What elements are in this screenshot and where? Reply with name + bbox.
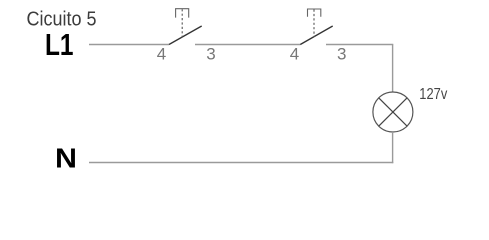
svg-text:4: 4 [157, 45, 166, 64]
lamp LP1 cross diagonal 1 [379, 98, 407, 126]
switch S1 blade [169, 26, 202, 45]
wire from switch S1 to switch S2 [195, 44, 300, 46]
switch S2 push actuator bracket [308, 9, 321, 17]
switch S2 blade [300, 26, 332, 45]
svg-text:N: N [55, 142, 77, 173]
switch S1 push actuator bracket [176, 9, 189, 18]
svg-text:3: 3 [337, 45, 346, 64]
wire N line [89, 162, 393, 164]
svg-text:127v: 127v [419, 86, 447, 103]
wire from L1 to switch S1 [89, 44, 169, 46]
wire from switch S2 to lamp branch corner [326, 44, 393, 46]
switch S1 actuator dashed link [181, 9, 183, 37]
wire vertical down to lamp [392, 45, 394, 93]
lamp LP1 cross diagonal 2 [379, 98, 407, 126]
svg-text:L1: L1 [45, 27, 74, 62]
svg-text:4: 4 [290, 45, 299, 64]
switch S2 actuator dashed link [313, 10, 315, 38]
wire from lamp down to N line [392, 132, 394, 163]
svg-text:3: 3 [206, 45, 215, 64]
lamp LP1 circle [373, 92, 413, 132]
